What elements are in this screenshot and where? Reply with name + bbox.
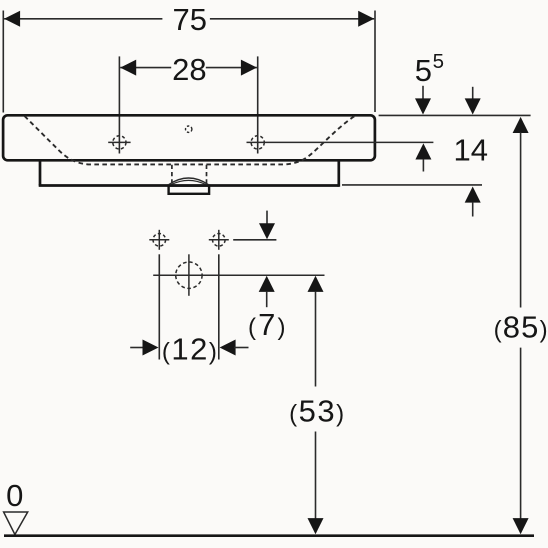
dimension (7) upper arrowhead (down) <box>259 223 275 239</box>
dimension 14 lower arrowhead (up) <box>465 187 481 203</box>
dimension (53) lower arrowhead (down) <box>308 518 324 534</box>
dimension 5.5 upper arrowhead (down) <box>415 98 431 114</box>
dimension (12) extension line left <box>158 254 160 359</box>
apron bottom extension line to right <box>342 184 482 186</box>
datum level triangle symbol <box>4 512 28 535</box>
svg-text:5: 5 <box>433 50 444 73</box>
dimension (53) lower shaft segment <box>315 432 317 519</box>
svg-text:5: 5 <box>415 53 432 88</box>
dimension 28 line right segment <box>206 67 257 69</box>
faucet hole left dashed circle <box>113 136 126 149</box>
dimension 14 upper arrow shaft <box>472 87 474 100</box>
fixing hole right crosshair vertical <box>218 230 220 250</box>
drain outlet centerline horizontal extended to 53 dimension <box>153 274 324 276</box>
dimension (7) lower arrowhead (up) <box>259 276 275 292</box>
trap cover dome outer arc <box>169 178 209 185</box>
overflow hole (small dashed circle) <box>186 126 192 132</box>
dimension 14 lower arrow shaft <box>472 202 474 217</box>
basin top extension line to right <box>379 114 531 116</box>
dimension 5.5 lower arrowhead (up) <box>415 143 431 159</box>
dimension 28 extension line left <box>118 56 120 153</box>
floor line <box>4 534 534 537</box>
drain hidden edge left (dashed) <box>171 165 173 184</box>
basin bowl hidden contour (dashed) <box>25 116 355 164</box>
dimension 28 extension line right <box>257 56 259 153</box>
dimension 75 extension line right <box>374 11 376 113</box>
fixing hole left crosshair horizontal <box>149 239 169 241</box>
faucet hole right dashed circle <box>251 136 264 149</box>
washbasin ceramic body outline <box>3 115 375 160</box>
svg-text:75: 75 <box>172 2 206 37</box>
dimension 75 line right segment <box>210 18 374 20</box>
fixing holes extension line to right <box>233 239 276 241</box>
dimension (12) right arrow shaft <box>234 347 249 349</box>
apron bottom edge <box>39 184 339 187</box>
dimension 5.5 lower arrow shaft <box>422 159 424 172</box>
apron right edge <box>337 160 340 187</box>
dimension (85) lower arrowhead (down) <box>513 518 529 534</box>
dimension 75 line left segment <box>4 18 162 20</box>
drain outlet centerline vertical <box>188 254 190 295</box>
svg-text:28: 28 <box>172 52 206 87</box>
fixing hole right crosshair horizontal <box>209 239 229 241</box>
svg-text:14: 14 <box>454 133 488 168</box>
dimension (85) upper arrowhead (up) <box>513 117 529 133</box>
fixing hole left crosshair vertical <box>158 230 160 250</box>
drain hidden edge right (dashed) <box>206 165 208 184</box>
dimension 28 arrowhead right <box>241 60 257 76</box>
faucet hole centerline extended right to 5.5 dimension <box>247 141 434 143</box>
dimension 75 extension line left <box>2 11 4 113</box>
dimension (12) left arrow shaft <box>130 347 144 349</box>
dimension (53) upper shaft segment <box>315 291 317 386</box>
drain outlet dashed circle <box>176 262 202 288</box>
dimension (7) upper arrow shaft <box>266 211 268 225</box>
dimension 75 arrowhead left <box>4 11 20 27</box>
dimension (85) upper shaft segment <box>520 132 522 307</box>
dimension 75 arrowhead right <box>358 11 374 27</box>
trap flange rectangle <box>169 186 210 194</box>
apron left edge <box>39 160 42 185</box>
dimension 28 arrowhead left <box>120 60 136 76</box>
dimension 5.5 upper arrow shaft <box>422 86 424 100</box>
dimension (7) lower arrow shaft <box>266 291 268 307</box>
trap cover dome inner arc <box>171 180 206 184</box>
dimension 28 line left segment <box>120 67 171 69</box>
fixing hole right dashed circle <box>213 234 226 247</box>
fixing hole left dashed circle <box>153 234 166 247</box>
dimension (12) left arrowhead (right pointing) <box>143 340 159 356</box>
dimension (12) extension line right <box>218 254 220 359</box>
dimension (12) right arrowhead (left pointing) <box>220 340 236 356</box>
dimension 14 upper arrowhead (down) <box>465 98 481 114</box>
dimension (85) lower shaft segment <box>520 348 522 519</box>
svg-text:0: 0 <box>6 478 23 513</box>
dimension (53) upper arrowhead (up) <box>308 276 324 292</box>
faucet hole left crosshair horizontal <box>108 141 130 143</box>
